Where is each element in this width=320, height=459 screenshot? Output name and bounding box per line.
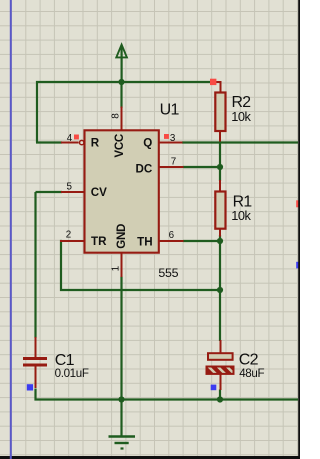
wire R1 top lead link <box>219 167 221 181</box>
red pin marker R2 top <box>210 79 216 85</box>
node junction pin2 wire <box>217 287 223 293</box>
wire pin2 to TR <box>61 241 220 290</box>
capacitor C2 bottom plate hatched <box>207 367 234 374</box>
blue marker near C2 <box>211 385 217 391</box>
wire pin5 down to C1 <box>34 192 36 338</box>
capacitor C2 top plate <box>208 353 233 360</box>
op lead pin4 red <box>61 142 79 144</box>
node junction rail/gnd <box>118 396 124 402</box>
svg-text:10k: 10k <box>231 208 251 223</box>
svg-text:DC: DC <box>136 163 153 176</box>
svg-text:10k: 10k <box>231 109 251 124</box>
resistor R1 body <box>215 192 225 229</box>
wire power stem <box>120 47 122 83</box>
wire pin6 <box>183 240 220 242</box>
lead pin5 red <box>61 191 84 193</box>
svg-text:U1: U1 <box>160 101 180 118</box>
resistor R2 body <box>215 93 225 132</box>
capacitor C1 leads <box>35 337 37 357</box>
svg-text:8: 8 <box>111 113 122 119</box>
lead pin2 red <box>60 240 84 242</box>
capacitor C2 leads <box>220 340 222 353</box>
blue marker near C1 <box>27 384 33 390</box>
svg-text:TR: TR <box>91 235 107 248</box>
svg-text:7: 7 <box>171 156 176 167</box>
pin R inversion bubble <box>80 140 84 144</box>
wire R2 bottom to pin7 node <box>219 143 221 168</box>
svg-text:4: 4 <box>67 133 73 144</box>
window edge bottom <box>0 456 300 459</box>
red pin marker pin4 <box>74 135 79 140</box>
wire C1 bottom to ground rail <box>36 389 299 400</box>
svg-text:0.01uF: 0.01uF <box>55 367 89 380</box>
svg-text:555: 555 <box>158 266 178 280</box>
resistor R2 leads <box>213 82 221 93</box>
wire C2 bottom to rail <box>219 390 221 400</box>
svg-text:5: 5 <box>67 182 73 193</box>
svg-text:R: R <box>91 137 100 150</box>
lead pin7 red <box>158 166 184 168</box>
svg-text:CV: CV <box>91 186 107 199</box>
wire pin7 <box>183 166 220 168</box>
node junction rail/C2 <box>217 396 223 402</box>
node junction pin6 <box>217 238 223 244</box>
svg-text:48uF: 48uF <box>239 367 264 380</box>
wire pin5 green segment <box>36 191 63 193</box>
ground symbol <box>109 400 136 449</box>
wire pin8 vertical <box>120 82 122 108</box>
lead pin1 red <box>121 253 123 277</box>
svg-text:1: 1 <box>110 265 121 271</box>
wire pin4 green segment <box>36 141 62 143</box>
lead pin3 red <box>158 142 183 144</box>
wire pin6 node down to pin2 node <box>219 241 221 290</box>
svg-text:2: 2 <box>66 230 71 241</box>
red pin marker pin3 <box>164 134 169 139</box>
node junction at top rail <box>118 79 124 85</box>
svg-text:VCC: VCC <box>113 133 126 158</box>
red pin marker right edge <box>296 200 300 207</box>
wire top rail VCC <box>37 82 213 143</box>
window edge right <box>298 0 300 459</box>
wire pin1 down <box>120 277 122 400</box>
lead pin8 red <box>121 107 123 131</box>
power terminal arrow <box>116 45 127 58</box>
svg-text:6: 6 <box>169 230 175 241</box>
svg-text:C2: C2 <box>239 352 259 369</box>
svg-text:Q: Q <box>143 137 152 150</box>
op-amp U1 555 body <box>85 130 159 252</box>
node junction pin7/R1 <box>217 164 223 170</box>
blue marker right edge <box>296 262 300 269</box>
resistor R1 leads <box>219 180 221 192</box>
svg-text:TH: TH <box>137 235 152 248</box>
svg-text:3: 3 <box>170 133 176 144</box>
sheet border blue line <box>10 0 12 459</box>
wire node down to C2 <box>219 290 221 341</box>
capacitor C1 plates <box>23 357 47 360</box>
lead pin6 red <box>158 240 184 242</box>
wire pin3 output <box>182 141 298 143</box>
svg-text:GND: GND <box>115 224 128 249</box>
wire R1 bottom link <box>219 235 221 241</box>
